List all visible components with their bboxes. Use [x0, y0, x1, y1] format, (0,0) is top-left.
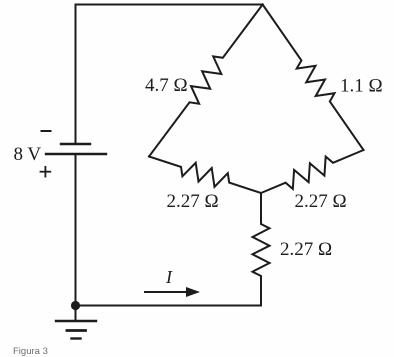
resistor R1 4.7 ohm (left diagonal) — [149, 5, 263, 157]
ground stub wire — [75, 306, 77, 322]
svg-text:2.27 Ω: 2.27 Ω — [280, 239, 332, 260]
resistor R5 2.27 ohm (vertical) — [253, 193, 270, 306]
current arrow I — [145, 287, 200, 297]
svg-text:I: I — [165, 267, 173, 287]
resistor R4 2.27 ohm (lower-right bridge arm) — [261, 150, 364, 193]
battery V1 8V bottom plate (positive, long) — [46, 153, 106, 155]
resistor R2 1.1 ohm (right diagonal) — [263, 5, 364, 151]
node junction dot — [71, 301, 80, 310]
label minus sign — [42, 130, 51, 132]
svg-text:2.27 Ω: 2.27 Ω — [167, 191, 219, 212]
ground symbol — [56, 321, 96, 339]
battery V1 8V top plate (negative, short) — [61, 143, 90, 145]
wire top-left vertical (battery top lead) — [75, 5, 77, 145]
label plus sign — [41, 167, 51, 177]
svg-text:4.7 Ω: 4.7 Ω — [145, 75, 188, 96]
svg-text:Figura 3: Figura 3 — [13, 346, 48, 357]
wire top horizontal — [76, 4, 263, 6]
resistor R3 2.27 ohm (lower-left bridge arm) — [149, 157, 261, 194]
svg-text:1.1 Ω: 1.1 Ω — [340, 76, 383, 97]
wire bottom horizontal — [76, 305, 262, 307]
svg-text:2.27 Ω: 2.27 Ω — [295, 191, 347, 212]
wire battery bottom lead — [75, 154, 77, 306]
svg-text:8 V: 8 V — [14, 144, 42, 165]
